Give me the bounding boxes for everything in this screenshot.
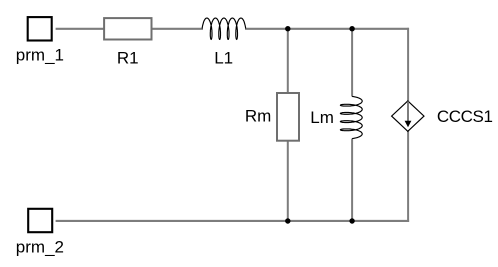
- svg-text:L1: L1: [214, 49, 233, 68]
- port prm_1: [28, 17, 52, 40]
- wire bottom: prm_2 to corner: [56, 220, 410, 222]
- svg-text:CCCS1: CCCS1: [437, 107, 493, 126]
- resistor R1: [104, 18, 151, 39]
- svg-text:prm_1: prm_1: [16, 45, 64, 64]
- wire: Rm branch upper: [287, 28, 289, 93]
- wire: Lm branch upper: [351, 28, 353, 97]
- wire top: R1 to L1: [152, 28, 203, 30]
- node junction bottom-Lm: [349, 218, 354, 223]
- wire: CCCS1 branch lower: [407, 131, 409, 222]
- inductor Lm: [340, 96, 362, 138]
- inductor L1: [202, 18, 246, 39]
- svg-text:Rm: Rm: [245, 107, 271, 126]
- wire: CCCS1 branch upper: [407, 28, 409, 102]
- port prm_2: [28, 209, 52, 232]
- resistor Rm: [277, 93, 299, 141]
- node junction top-Lm: [349, 26, 354, 31]
- node junction bottom-Rm: [285, 218, 290, 223]
- svg-text:prm_2: prm_2: [16, 237, 64, 256]
- CCCS1 arrow shaft: [407, 102, 409, 123]
- svg-text:R1: R1: [117, 49, 139, 68]
- wire top: L1 to corner: [245, 28, 409, 30]
- CCCS1 arrow head: [405, 121, 412, 128]
- node junction top-Rm: [285, 26, 290, 31]
- CCCS1 diamond body: [392, 101, 424, 131]
- wire: Rm branch lower: [287, 141, 289, 221]
- wire top: prm_1 to R1: [56, 28, 104, 30]
- wire: Lm branch lower: [351, 139, 353, 221]
- svg-text:Lm: Lm: [310, 108, 334, 127]
